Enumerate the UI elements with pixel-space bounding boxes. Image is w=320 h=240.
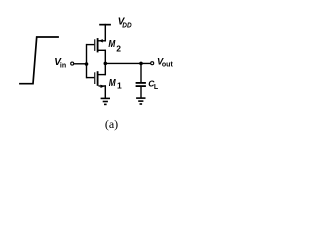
input step waveform (19, 37, 59, 84)
svg-text:1: 1 (117, 80, 122, 90)
transistor M2 (87, 38, 106, 52)
label Vout (157, 57, 173, 69)
power VDD (99, 24, 111, 26)
wire output rail (105, 62, 150, 64)
svg-text:in: in (60, 62, 66, 69)
wire VDD to M2 source (104, 25, 106, 41)
wire M1 source to ground (104, 86, 106, 98)
transistor M1 (87, 71, 106, 88)
label Vin (54, 57, 66, 70)
ground CL (136, 97, 145, 104)
label CL (148, 78, 159, 91)
label M2 (108, 39, 121, 53)
wire gate rail (86, 45, 88, 78)
capacitor CL (136, 82, 146, 87)
svg-text:out: out (162, 62, 174, 69)
label VDD (118, 17, 132, 30)
wire CL tap to capacitor (140, 63, 142, 82)
caption (a) (105, 117, 118, 131)
wire M1 drain to output junction (104, 63, 106, 74)
wire CL to ground (140, 87, 142, 98)
junction output node (104, 62, 108, 66)
terminal Vin (71, 62, 74, 65)
svg-text:2: 2 (116, 43, 121, 53)
wire Vin to gate junction (74, 63, 87, 65)
svg-text:M: M (109, 78, 116, 89)
label M1 (109, 78, 122, 90)
svg-text:DD: DD (122, 21, 132, 30)
junction CL tap (139, 62, 143, 66)
terminal Vout (151, 62, 154, 65)
junction gate node (85, 62, 89, 66)
svg-text:(a): (a) (105, 117, 118, 131)
svg-text:L: L (154, 84, 159, 91)
wire M2 drain to output junction (104, 50, 106, 63)
ground M1 (101, 98, 110, 106)
svg-text:M: M (108, 39, 115, 50)
